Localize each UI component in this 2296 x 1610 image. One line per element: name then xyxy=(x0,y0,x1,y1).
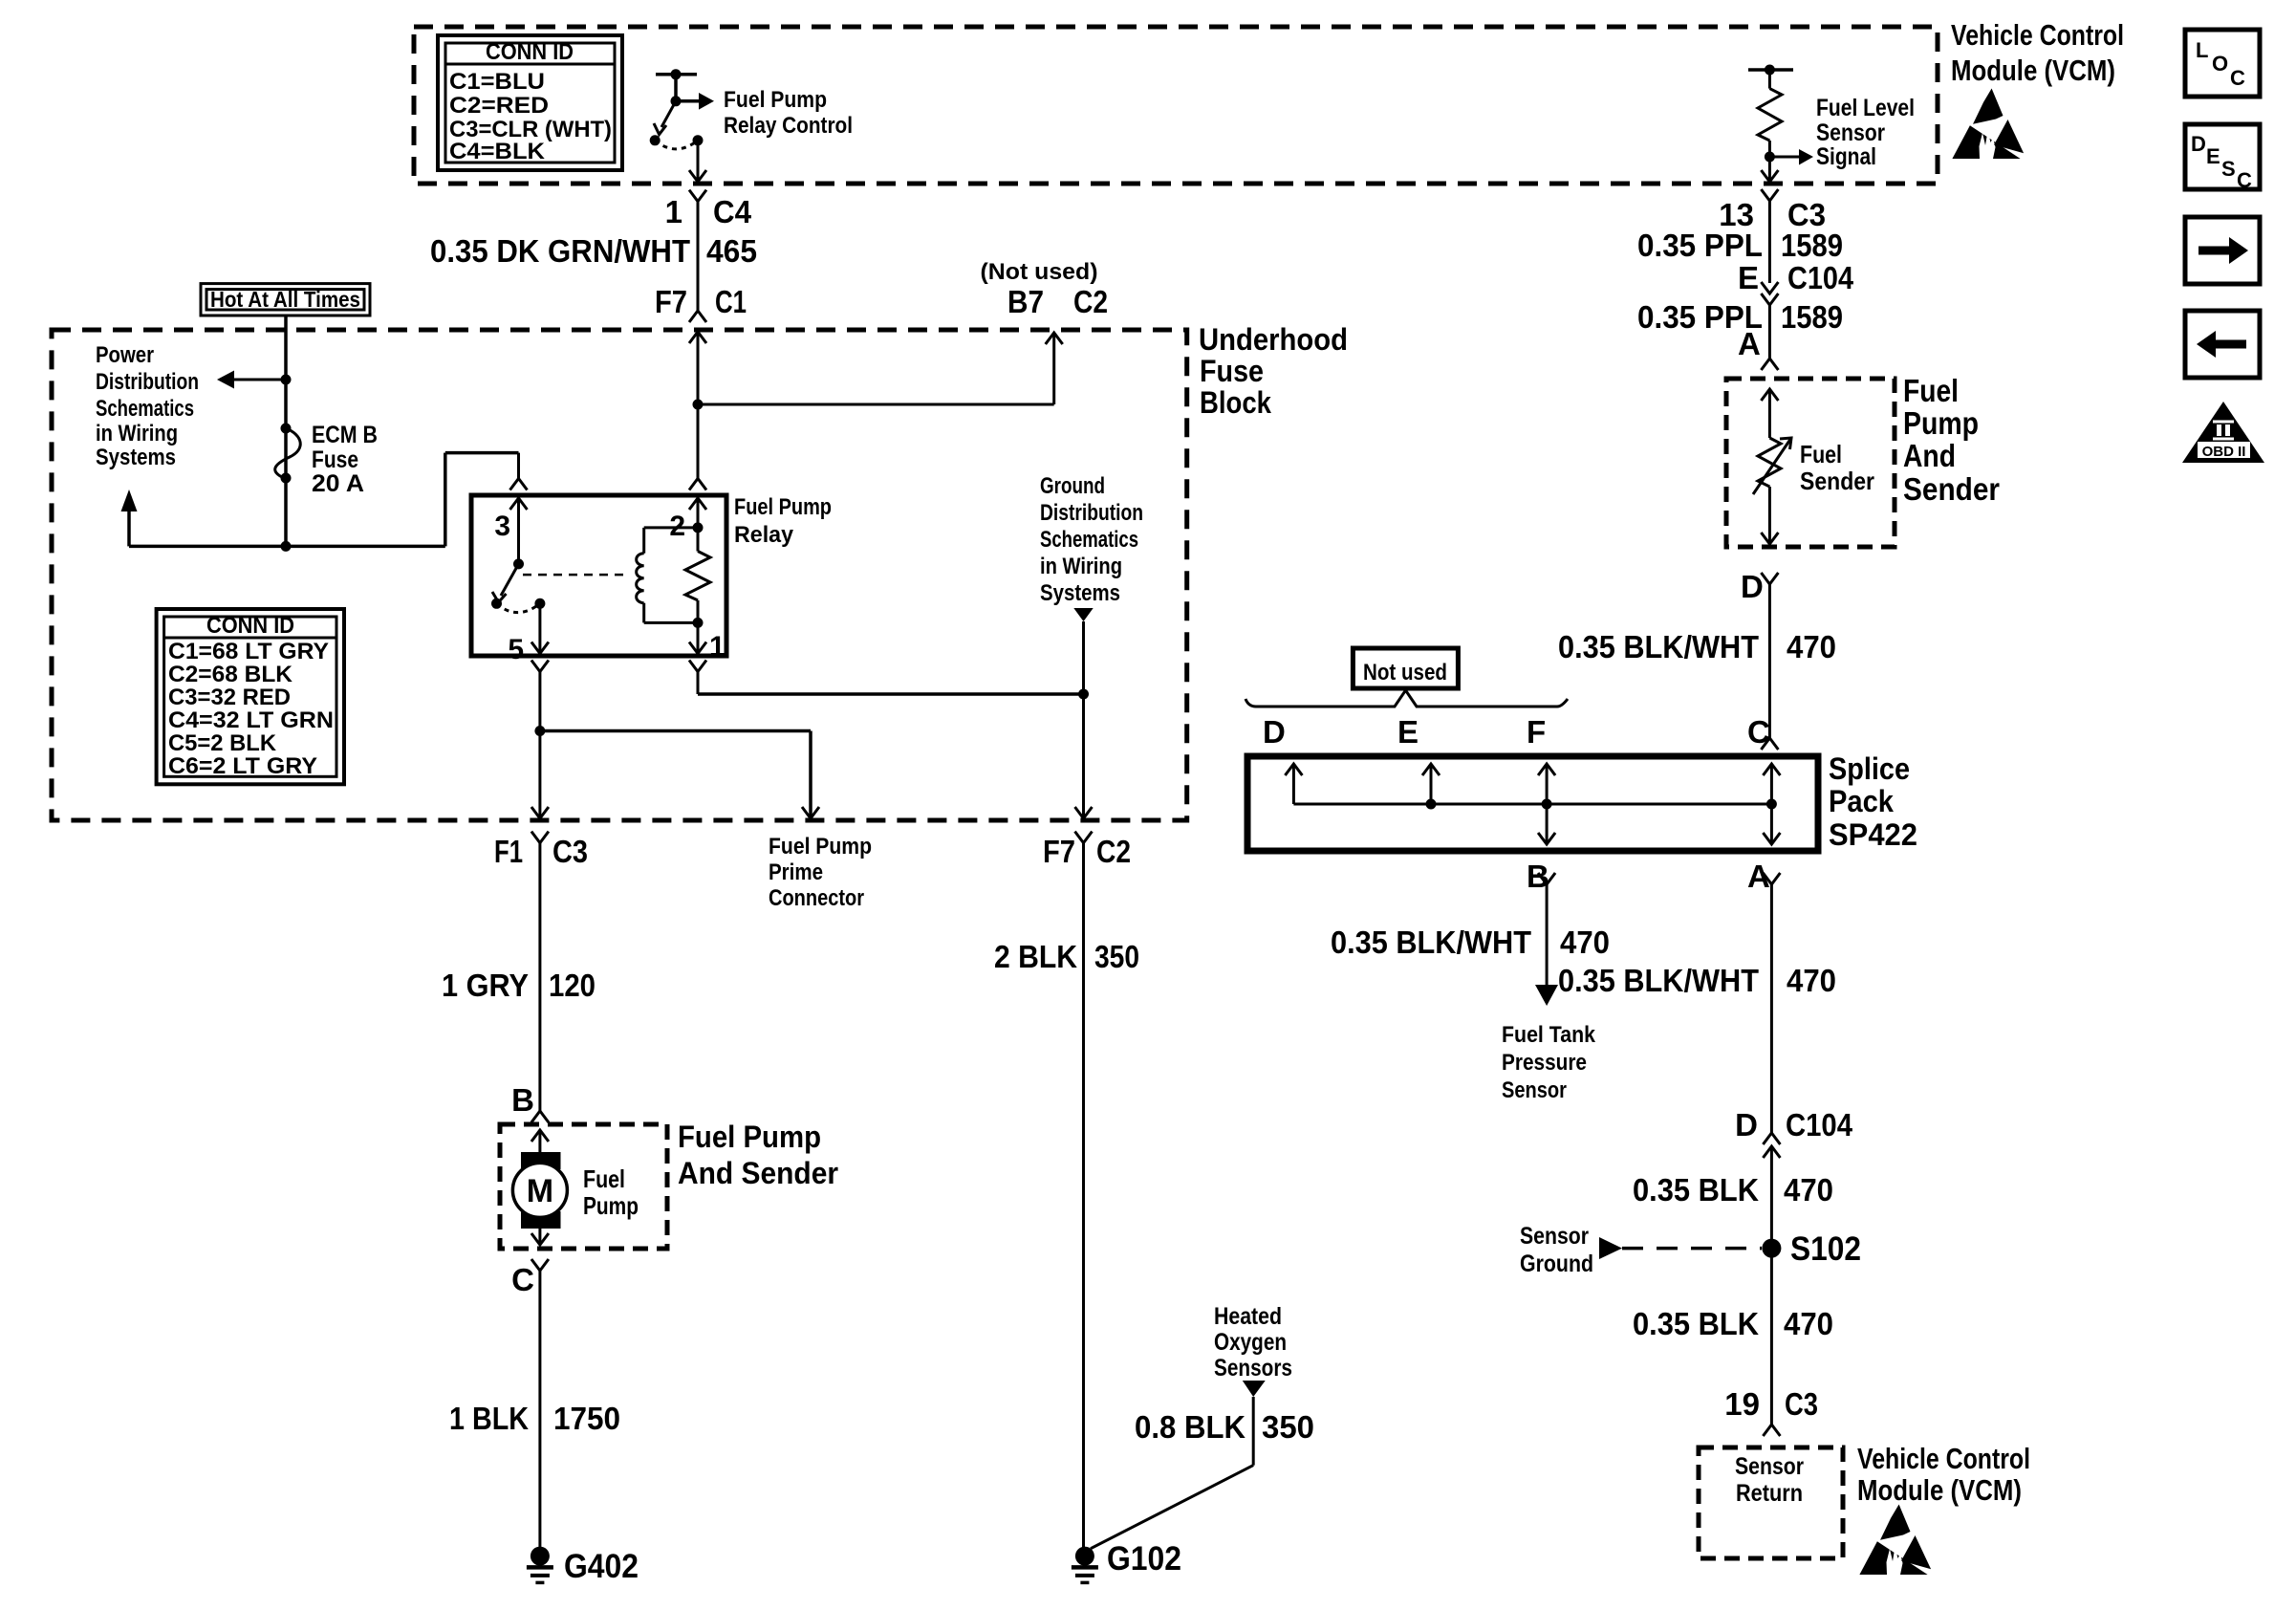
svg-text:Hot At All Times: Hot At All Times xyxy=(210,287,360,312)
svg-text:Sensors: Sensors xyxy=(1214,1355,1292,1382)
svg-text:0.8 BLK: 0.8 BLK xyxy=(1135,1409,1245,1445)
svg-text:470: 470 xyxy=(1784,1306,1833,1341)
svg-text:1 GRY: 1 GRY xyxy=(442,968,529,1003)
svg-text:Sender: Sender xyxy=(1800,467,1874,495)
svg-text:in Wiring: in Wiring xyxy=(96,421,178,446)
svg-text:G402: G402 xyxy=(564,1548,639,1585)
svg-text:Fuel Level: Fuel Level xyxy=(1816,95,1915,121)
svg-text:F1: F1 xyxy=(494,834,523,869)
svg-text:Fuse: Fuse xyxy=(1200,354,1264,388)
svg-text:Return: Return xyxy=(1736,1480,1803,1507)
svg-text:C: C xyxy=(511,1262,534,1297)
svg-text:Vehicle Control: Vehicle Control xyxy=(1951,18,2124,52)
svg-text:20 A: 20 A xyxy=(312,470,364,497)
svg-text:C3: C3 xyxy=(1785,1386,1818,1422)
svg-text:(Not used): (Not used) xyxy=(981,259,1098,285)
svg-text:Vehicle Control: Vehicle Control xyxy=(1857,1442,2030,1475)
svg-text:Fuel Pump: Fuel Pump xyxy=(724,87,827,113)
svg-text:2 BLK: 2 BLK xyxy=(994,939,1077,974)
svg-text:Splice: Splice xyxy=(1829,751,1910,786)
svg-text:Sensor: Sensor xyxy=(1502,1077,1567,1103)
svg-text:S: S xyxy=(2221,157,2236,181)
svg-text:Fuel: Fuel xyxy=(583,1164,625,1193)
svg-text:350: 350 xyxy=(1262,1409,1314,1445)
svg-text:in Wiring: in Wiring xyxy=(1040,554,1122,579)
svg-text:A: A xyxy=(1738,326,1761,361)
svg-text:Relay: Relay xyxy=(734,522,794,548)
svg-text:C4=BLK: C4=BLK xyxy=(449,139,546,164)
svg-text:Underhood: Underhood xyxy=(1199,322,1348,357)
svg-text:Pack: Pack xyxy=(1829,784,1894,818)
svg-text:0.35 BLK: 0.35 BLK xyxy=(1633,1172,1759,1207)
svg-text:Distribution: Distribution xyxy=(1040,500,1143,526)
svg-text:C3=32 RED: C3=32 RED xyxy=(168,685,291,710)
svg-text:1: 1 xyxy=(665,194,682,229)
svg-text:1: 1 xyxy=(709,631,726,663)
svg-text:120: 120 xyxy=(549,968,596,1003)
svg-text:OBD II: OBD II xyxy=(2202,444,2246,460)
svg-text:Heated: Heated xyxy=(1214,1303,1282,1330)
svg-text:C4: C4 xyxy=(713,194,752,229)
svg-text:Distribution: Distribution xyxy=(96,369,199,395)
svg-text:Fuel Pump: Fuel Pump xyxy=(769,834,872,859)
svg-text:F: F xyxy=(1527,714,1546,750)
svg-text:C2=68 BLK: C2=68 BLK xyxy=(168,662,293,687)
svg-text:Sensor: Sensor xyxy=(1735,1453,1804,1480)
svg-text:C1=BLU: C1=BLU xyxy=(449,69,545,95)
svg-text:C104: C104 xyxy=(1787,260,1854,295)
svg-text:Fuel: Fuel xyxy=(1903,373,1959,408)
svg-text:C1: C1 xyxy=(715,284,747,319)
svg-text:470: 470 xyxy=(1784,1172,1833,1207)
svg-text:Systems: Systems xyxy=(1040,580,1120,606)
svg-text:Fuel: Fuel xyxy=(1800,440,1842,468)
svg-text:And: And xyxy=(1903,438,1956,473)
svg-text:0.35 BLK/WHT: 0.35 BLK/WHT xyxy=(1558,629,1759,664)
svg-text:M: M xyxy=(527,1173,553,1209)
svg-text:C: C xyxy=(2230,66,2245,90)
svg-text:C4=32 LT GRN: C4=32 LT GRN xyxy=(168,707,334,733)
svg-text:C1=68 LT GRY: C1=68 LT GRY xyxy=(168,639,329,664)
svg-text:C2: C2 xyxy=(1073,284,1108,319)
svg-text:Prime: Prime xyxy=(769,859,823,885)
svg-text:Fuse: Fuse xyxy=(312,446,358,473)
svg-text:1589: 1589 xyxy=(1781,299,1843,335)
svg-text:0.35 DK GRN/WHT: 0.35 DK GRN/WHT xyxy=(430,233,690,269)
svg-text:Ground: Ground xyxy=(1520,1251,1593,1277)
svg-text:D: D xyxy=(1741,569,1764,604)
svg-text:Signal: Signal xyxy=(1816,143,1876,170)
svg-text:C: C xyxy=(2237,168,2252,192)
svg-text:Power: Power xyxy=(96,342,154,368)
svg-text:0.35 PPL: 0.35 PPL xyxy=(1637,228,1763,263)
svg-text:C3: C3 xyxy=(552,834,588,869)
svg-text:470: 470 xyxy=(1787,963,1836,998)
svg-text:5: 5 xyxy=(508,634,524,665)
svg-text:Sensor: Sensor xyxy=(1816,120,1885,146)
svg-text:B: B xyxy=(511,1082,534,1118)
svg-text:Schematics: Schematics xyxy=(96,396,194,422)
svg-text:C2: C2 xyxy=(1096,834,1131,869)
svg-text:SP422: SP422 xyxy=(1829,817,1917,852)
svg-text:Module (VCM): Module (VCM) xyxy=(1857,1473,2022,1507)
svg-text:D: D xyxy=(1735,1107,1758,1142)
svg-text:F7: F7 xyxy=(655,284,687,319)
svg-text:C5=2 BLK: C5=2 BLK xyxy=(168,730,277,756)
svg-text:O: O xyxy=(2212,52,2228,76)
svg-text:Sensor: Sensor xyxy=(1520,1223,1589,1250)
svg-text:3: 3 xyxy=(494,511,510,542)
svg-text:S102: S102 xyxy=(1790,1230,1861,1268)
svg-text:Fuel Pump: Fuel Pump xyxy=(734,494,832,520)
svg-text:E: E xyxy=(1738,260,1759,295)
svg-text:E: E xyxy=(2206,144,2220,168)
svg-text:B7: B7 xyxy=(1007,284,1044,319)
svg-text:Not used: Not used xyxy=(1363,660,1447,685)
svg-text:D: D xyxy=(1263,714,1286,750)
svg-text:C2=RED: C2=RED xyxy=(449,93,549,119)
svg-text:19: 19 xyxy=(1724,1386,1760,1422)
svg-text:Block: Block xyxy=(1200,385,1271,420)
svg-text:Fuel Tank: Fuel Tank xyxy=(1502,1022,1596,1048)
svg-text:Oxygen: Oxygen xyxy=(1214,1329,1287,1356)
svg-text:0.35 BLK/WHT: 0.35 BLK/WHT xyxy=(1331,925,1531,960)
svg-text:1 BLK: 1 BLK xyxy=(449,1401,529,1436)
svg-text:470: 470 xyxy=(1787,629,1836,664)
svg-text:Fuel Pump: Fuel Pump xyxy=(678,1120,821,1154)
svg-text:L: L xyxy=(2196,38,2208,62)
svg-text:Pump: Pump xyxy=(1903,405,1979,441)
svg-text:ECM B: ECM B xyxy=(312,422,378,448)
svg-text:Schematics: Schematics xyxy=(1040,527,1138,553)
svg-text:CONN ID: CONN ID xyxy=(486,39,574,65)
svg-text:C104: C104 xyxy=(1786,1107,1853,1142)
svg-text:CONN ID: CONN ID xyxy=(206,613,294,639)
svg-text:470: 470 xyxy=(1560,925,1610,960)
svg-text:E: E xyxy=(1397,714,1419,750)
svg-text:F7: F7 xyxy=(1043,834,1075,869)
svg-text:Systems: Systems xyxy=(96,445,176,470)
svg-text:1750: 1750 xyxy=(553,1401,620,1436)
svg-text:And Sender: And Sender xyxy=(678,1156,838,1190)
svg-text:Sender: Sender xyxy=(1903,471,2000,507)
svg-text:D: D xyxy=(2191,132,2206,156)
svg-text:G102: G102 xyxy=(1107,1540,1181,1577)
svg-text:0.35 BLK: 0.35 BLK xyxy=(1633,1306,1759,1341)
svg-text:1589: 1589 xyxy=(1781,228,1843,263)
svg-text:Ground: Ground xyxy=(1040,473,1105,499)
svg-text:350: 350 xyxy=(1094,939,1139,974)
svg-text:Pressure: Pressure xyxy=(1502,1050,1587,1076)
svg-text:Module (VCM): Module (VCM) xyxy=(1951,54,2115,87)
svg-text:C6=2 LT GRY: C6=2 LT GRY xyxy=(168,753,317,779)
svg-text:465: 465 xyxy=(706,233,757,269)
svg-text:0.35 BLK/WHT: 0.35 BLK/WHT xyxy=(1558,963,1759,998)
svg-text:Relay Control: Relay Control xyxy=(724,113,853,139)
svg-text:Connector: Connector xyxy=(769,885,864,911)
svg-text:Pump: Pump xyxy=(583,1191,639,1220)
